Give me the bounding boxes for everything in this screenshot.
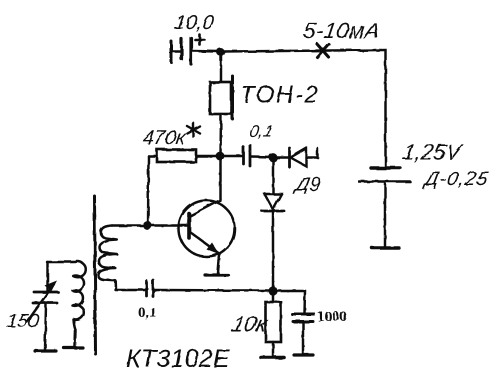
node D junction dot — [269, 153, 278, 162]
wire R1 down to node C — [147, 156, 150, 225]
svg-text:10к: 10к — [229, 312, 271, 337]
svg-text:150: 150 — [5, 311, 40, 332]
capacitor C2 0,1 — [220, 145, 272, 166]
asterisk mark — [188, 123, 201, 137]
diode VD1 D9 horizontal — [273, 148, 318, 167]
node C junction dot — [143, 221, 152, 230]
node B junction dot — [216, 152, 225, 161]
svg-text:470к: 470к — [141, 127, 188, 149]
wire C3 to node E — [154, 289, 271, 292]
ferrite core — [95, 196, 96, 354]
wire L2 to C3 — [116, 289, 146, 291]
wire C1 to node A — [192, 50, 219, 53]
plus sign of C1 — [195, 35, 204, 45]
svg-text:0,1: 0,1 — [248, 122, 274, 141]
node A junction dot — [217, 48, 225, 56]
wire top rail to battery — [221, 50, 386, 166]
capacitor C3 0,1 bottom — [147, 280, 154, 297]
headphones U1 TON-2 — [210, 76, 233, 119]
svg-text:0,1: 0,1 — [138, 305, 157, 321]
base wire — [112, 224, 188, 226]
svg-text:Д9: Д9 — [293, 175, 323, 196]
svg-text:5-10мА: 5-10мА — [302, 18, 382, 43]
diode VD2 vertical — [262, 158, 284, 291]
inductor L1 loop antenna — [47, 262, 86, 348]
svg-text:ТОН-2: ТОН-2 — [240, 82, 319, 109]
arrow of variable capacitor — [27, 281, 57, 323]
node E junction dot — [268, 286, 277, 295]
collector wire up to node B — [219, 158, 221, 200]
svg-text:Д-0,25: Д-0,25 — [422, 168, 491, 190]
svg-text:1,25V: 1,25V — [401, 140, 465, 165]
capacitor C1 10,0 electrolytic — [171, 38, 191, 64]
inductor L2 base winding — [98, 226, 117, 290]
wire node A down to TON-2 — [220, 52, 222, 82]
svg-text:КТ3102Е: КТ3102Е — [126, 345, 230, 373]
wire TON-2 to node B — [219, 114, 222, 156]
variable capacitor C5 150 — [33, 262, 58, 351]
resistor R2 10k — [261, 291, 284, 358]
resistor R1 470k — [149, 150, 217, 163]
current break X mark — [317, 44, 329, 57]
svg-text:10,0: 10,0 — [173, 12, 215, 34]
battery GB1 — [359, 168, 410, 248]
transistor VT1 KT3102E — [179, 200, 235, 275]
capacitor C4 1000 — [273, 291, 314, 355]
svg-text:1000: 1000 — [317, 309, 347, 325]
